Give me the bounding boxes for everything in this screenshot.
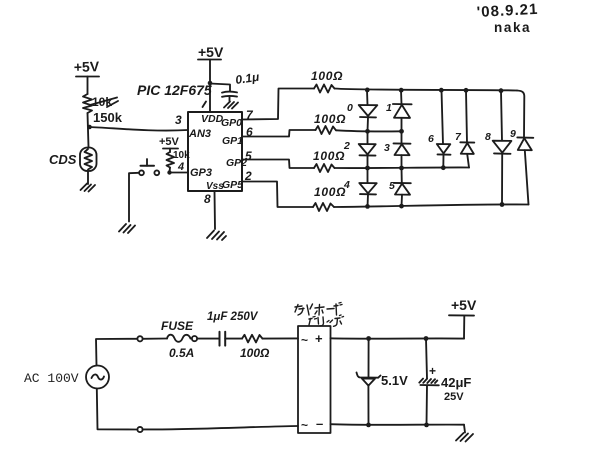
svg-text:10k: 10k (173, 150, 190, 161)
svg-text:naka: naka (494, 20, 531, 35)
svg-text:+: + (429, 364, 436, 378)
svg-text:GP5: GP5 (222, 179, 243, 191)
svg-text:GP0: GP0 (221, 117, 242, 129)
svg-text:'08.9.21: '08.9.21 (476, 1, 538, 21)
svg-text:25V: 25V (444, 391, 464, 403)
svg-text:100Ω: 100Ω (240, 346, 270, 360)
svg-text:+5V: +5V (198, 44, 224, 60)
svg-text:3: 3 (384, 142, 390, 154)
svg-text:+: + (315, 331, 323, 346)
svg-text:GP1: GP1 (222, 135, 243, 147)
svg-text:PIC 12F675: PIC 12F675 (137, 82, 212, 98)
svg-text:1: 1 (386, 102, 392, 114)
svg-text:100Ω: 100Ω (314, 112, 346, 126)
svg-text:6: 6 (428, 133, 434, 145)
svg-text:6: 6 (246, 125, 253, 139)
svg-text:42μF: 42μF (441, 375, 471, 390)
svg-text:0.5A: 0.5A (169, 346, 194, 360)
svg-text:100Ω: 100Ω (313, 149, 345, 163)
svg-text:CDS: CDS (49, 152, 77, 167)
svg-text:+5V: +5V (451, 297, 477, 313)
svg-text:–: – (316, 416, 323, 431)
svg-text:~: ~ (301, 333, 308, 347)
svg-text:FUSE: FUSE (161, 319, 194, 333)
svg-text:4: 4 (343, 179, 350, 191)
svg-text:9: 9 (510, 128, 516, 140)
svg-text:AN3: AN3 (188, 128, 211, 140)
svg-text:+5V: +5V (159, 136, 180, 148)
svg-text:5: 5 (389, 180, 395, 192)
svg-text:0: 0 (347, 102, 353, 114)
svg-text:8: 8 (485, 131, 491, 143)
svg-text:10k: 10k (92, 95, 112, 109)
svg-text:AC 100V: AC 100V (24, 371, 79, 386)
svg-text:2: 2 (244, 169, 252, 183)
svg-text:+5V: +5V (74, 58, 101, 75)
svg-text:5.1V: 5.1V (381, 373, 408, 388)
svg-text:8: 8 (204, 192, 211, 206)
svg-text:3: 3 (175, 113, 182, 127)
svg-text:100Ω: 100Ω (314, 185, 346, 199)
svg-text:1μF 250V: 1μF 250V (207, 311, 259, 323)
svg-text:2: 2 (343, 140, 350, 152)
svg-text:150k: 150k (93, 110, 123, 125)
svg-text:100Ω: 100Ω (311, 69, 343, 83)
svg-text:GP2: GP2 (226, 157, 247, 169)
svg-text:~: ~ (301, 418, 308, 432)
svg-text:GP3: GP3 (190, 167, 212, 179)
svg-text:4: 4 (177, 161, 184, 173)
